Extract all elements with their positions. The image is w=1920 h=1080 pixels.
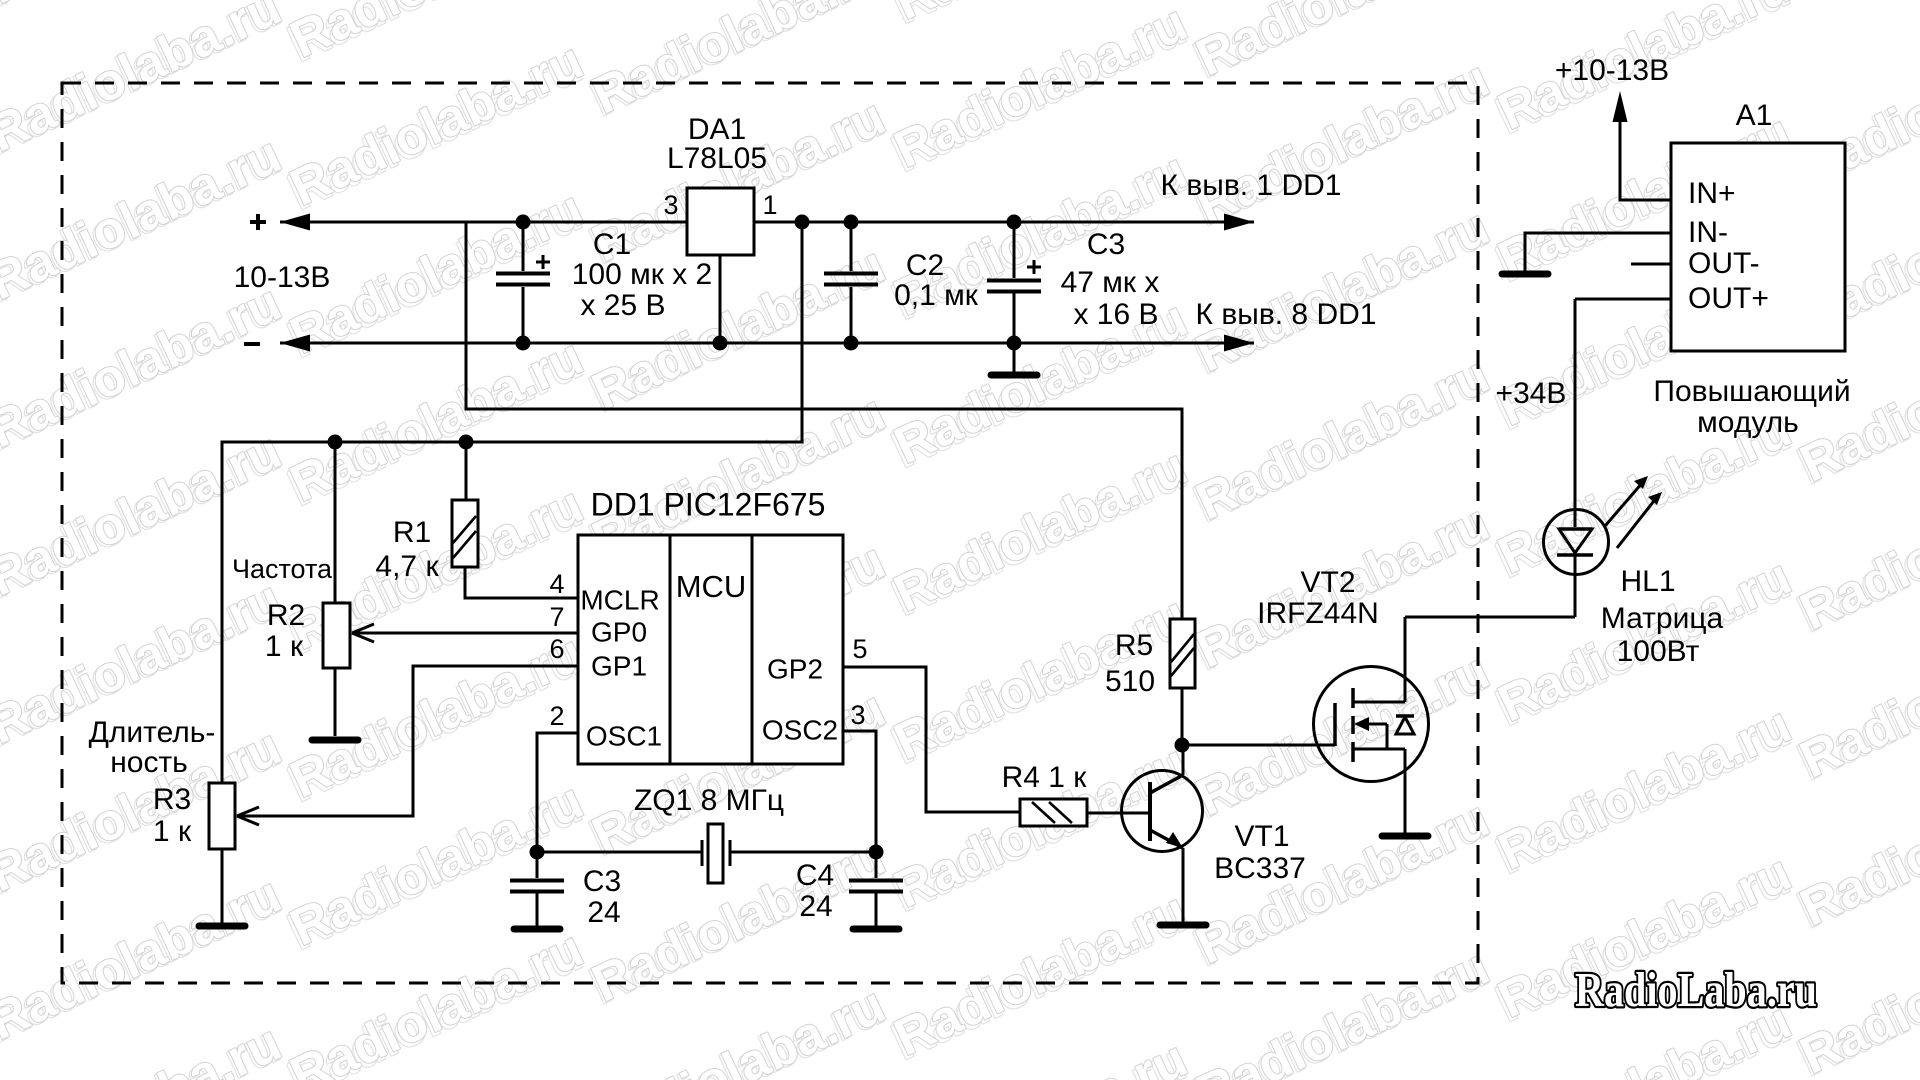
svg-text:C3: C3 xyxy=(1087,228,1125,261)
svg-text:R2: R2 xyxy=(267,599,305,632)
svg-text:3: 3 xyxy=(663,190,678,220)
svg-text:1 к: 1 к xyxy=(265,630,304,663)
svg-text:1: 1 xyxy=(762,190,777,220)
svg-text:A1: A1 xyxy=(1736,99,1773,132)
svg-text:IN-: IN- xyxy=(1688,216,1728,249)
svg-text:24: 24 xyxy=(587,896,620,929)
svg-text:IN+: IN+ xyxy=(1688,177,1736,210)
svg-text:R5: R5 xyxy=(1115,629,1153,662)
svg-text:OSC1: OSC1 xyxy=(586,720,662,751)
svg-text:C3: C3 xyxy=(583,865,621,898)
svg-text:C2: C2 xyxy=(906,249,944,282)
svg-text:GP1: GP1 xyxy=(591,650,647,681)
svg-text:RadioLaba.ru: RadioLaba.ru xyxy=(1575,962,1817,1017)
svg-text:модуль: модуль xyxy=(1697,406,1799,439)
svg-text:VT1: VT1 xyxy=(1234,820,1289,853)
svg-text:3: 3 xyxy=(850,700,865,730)
svg-text:+34В: +34В xyxy=(1496,377,1567,410)
svg-text:2: 2 xyxy=(549,701,564,731)
svg-text:100 мк x 2: 100 мк x 2 xyxy=(572,258,713,291)
svg-text:DD1 PIC12F675: DD1 PIC12F675 xyxy=(591,486,826,522)
svg-text:VT2: VT2 xyxy=(1300,566,1355,599)
svg-text:C4: C4 xyxy=(796,859,834,892)
svg-text:GP0: GP0 xyxy=(591,616,647,647)
svg-text:R3: R3 xyxy=(153,783,191,816)
svg-text:MCU: MCU xyxy=(676,569,747,604)
svg-text:100Вт: 100Вт xyxy=(1617,635,1700,668)
svg-text:+10-13В: +10-13В xyxy=(1555,54,1669,87)
svg-text:1 к: 1 к xyxy=(153,815,192,848)
svg-text:OSC2: OSC2 xyxy=(762,714,838,745)
svg-text:MCLR: MCLR xyxy=(580,584,659,615)
svg-text:Длитель-: Длитель- xyxy=(89,716,216,749)
svg-text:10-13В: 10-13В xyxy=(234,261,331,294)
svg-text:x 16 В: x 16 В xyxy=(1073,298,1158,331)
svg-text:ность: ность xyxy=(110,746,188,779)
svg-text:L78L05: L78L05 xyxy=(667,142,767,175)
svg-text:6: 6 xyxy=(549,634,564,664)
svg-text:ZQ1 8 МГц: ZQ1 8 МГц xyxy=(634,784,784,817)
svg-text:7: 7 xyxy=(549,602,564,632)
svg-text:0,1 мк: 0,1 мк xyxy=(894,279,979,312)
svg-text:4,7 к: 4,7 к xyxy=(375,550,439,583)
svg-text:5: 5 xyxy=(852,634,867,664)
svg-text:IRFZ44N: IRFZ44N xyxy=(1257,597,1379,630)
svg-text:OUT-: OUT- xyxy=(1688,247,1760,280)
svg-text:24: 24 xyxy=(799,890,832,923)
svg-text:GP2: GP2 xyxy=(767,653,823,684)
svg-text:R1: R1 xyxy=(393,516,431,549)
svg-text:К выв. 8 DD1: К выв. 8 DD1 xyxy=(1196,298,1377,331)
svg-text:К выв. 1 DD1: К выв. 1 DD1 xyxy=(1161,169,1342,202)
svg-text:x 25 В: x 25 В xyxy=(580,289,665,322)
svg-text:HL1: HL1 xyxy=(1620,565,1675,598)
svg-text:R4 1 к: R4 1 к xyxy=(1002,761,1088,794)
svg-text:4: 4 xyxy=(549,569,564,599)
svg-text:BC337: BC337 xyxy=(1214,852,1306,885)
svg-text:47 мк x: 47 мк x xyxy=(1061,266,1160,299)
svg-text:OUT+: OUT+ xyxy=(1688,282,1769,315)
svg-text:C1: C1 xyxy=(593,228,631,261)
svg-text:Частота: Частота xyxy=(232,554,333,584)
svg-text:Повышающий: Повышающий xyxy=(1653,375,1850,408)
svg-text:Матрица: Матрица xyxy=(1601,602,1724,635)
svg-text:510: 510 xyxy=(1105,665,1155,698)
